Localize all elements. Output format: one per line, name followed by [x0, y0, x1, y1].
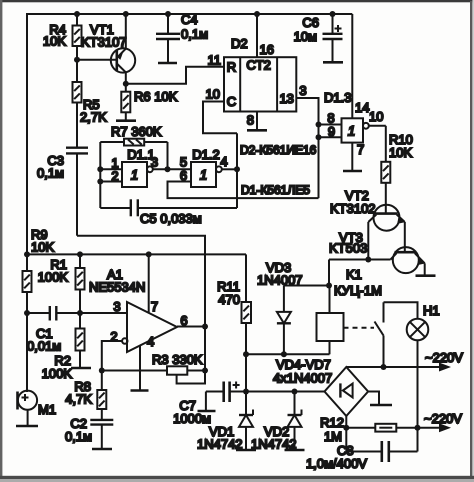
- junction top rail VT1 emitter: [123, 11, 129, 17]
- wire R11 to detector node: [245, 354, 247, 391]
- svg-text:100K: 100K: [38, 270, 69, 285]
- wire D1.1 pin 1: [100, 168, 122, 170]
- junction output node: [202, 324, 208, 330]
- wire VT1 base: [77, 59, 117, 61]
- svg-text:D1.2: D1.2: [192, 147, 219, 162]
- ground D1.3 pin 7: [343, 170, 362, 173]
- svg-text:0,01м: 0,01м: [27, 339, 61, 354]
- relay K1 coil: [317, 267, 382, 354]
- junction bus pin1: [97, 166, 103, 172]
- svg-text:CT2: CT2: [246, 58, 271, 73]
- resistor R9: [23, 227, 55, 392]
- svg-text:1000м: 1000м: [173, 411, 211, 426]
- svg-text:100K: 100K: [42, 366, 73, 381]
- label D2 type: [240, 143, 317, 157]
- lamp H1: [407, 303, 440, 340]
- ground C4: [158, 62, 177, 65]
- bridge rectifier VD4-VD7: [273, 357, 368, 416]
- junction VT1 collector node: [123, 81, 129, 87]
- junction mic node: [24, 310, 30, 316]
- wire R7 right leg: [167, 142, 169, 169]
- wire D1.3 pin 8: [319, 124, 342, 126]
- wire bridge right to ground: [368, 392, 379, 405]
- transistor VT2: [330, 188, 405, 260]
- junction VD3 bottom: [281, 351, 287, 357]
- wire contact bracket: [384, 302, 418, 319]
- wire D1.2 pin 6 feedback: [168, 182, 319, 199]
- svg-text:K1: K1: [346, 267, 362, 282]
- ground D2 pin 8: [247, 129, 267, 132]
- svg-text:R7 360K: R7 360K: [111, 124, 162, 139]
- junction top rail R4: [74, 11, 80, 17]
- svg-text:10K: 10K: [31, 240, 54, 255]
- junction rail R1: [77, 251, 83, 257]
- svg-text:R12: R12: [320, 415, 344, 430]
- resistor R3: [152, 352, 205, 375]
- diode VD3: [257, 260, 303, 354]
- wire supply rail mid: [27, 253, 246, 255]
- svg-text:1N4007: 1N4007: [257, 273, 303, 288]
- capacitor C8: [306, 428, 418, 471]
- arrow mains lower: [424, 411, 462, 432]
- svg-text:1: 1: [131, 168, 139, 183]
- wire R3 bottom jog: [177, 371, 205, 384]
- svg-text:10: 10: [369, 109, 383, 124]
- ground R2: [71, 367, 91, 370]
- ground VD2: [285, 449, 305, 452]
- svg-text:R: R: [227, 60, 236, 75]
- svg-text:C4: C4: [181, 12, 198, 27]
- ground C6: [323, 61, 343, 64]
- svg-text:1N4742: 1N4742: [197, 437, 243, 452]
- svg-text:C6: C6: [302, 15, 319, 30]
- junction rail op-amp pin7: [146, 251, 152, 257]
- resistor R12: [320, 415, 443, 444]
- wire C3 to op-amp output column: [77, 236, 205, 327]
- ground bridge: [370, 404, 392, 407]
- capacitor C1: [27, 306, 80, 354]
- capacitor C6 polarized: [294, 14, 343, 61]
- wire inverting node to R3: [102, 370, 167, 372]
- svg-text:470: 470: [218, 292, 240, 307]
- label D1 type: [241, 183, 310, 197]
- transistor VT1: [81, 14, 135, 84]
- svg-text:0,1м: 0,1м: [181, 27, 208, 42]
- wire D1.3 pin 7: [351, 143, 353, 170]
- gate D1.2: [180, 147, 228, 187]
- ground C2: [92, 448, 112, 451]
- wire bridge bottom: [345, 416, 347, 428]
- junction VD2 top: [292, 389, 298, 395]
- ground VT3 emitter: [416, 274, 436, 277]
- junction R3 right node: [202, 368, 208, 374]
- svg-text:KT3102: KT3102: [330, 201, 376, 216]
- svg-text:NE5534N: NE5534N: [89, 280, 145, 295]
- ground M1: [16, 425, 38, 428]
- svg-text:4: 4: [147, 334, 154, 349]
- transistor VT3: [329, 230, 425, 275]
- svg-text:10м: 10м: [294, 29, 317, 44]
- resistor R11: [217, 254, 251, 354]
- wire D1.3 output: [368, 125, 386, 127]
- svg-text:16: 16: [260, 42, 274, 57]
- counter D2 K561IE16: [224, 36, 296, 112]
- capacitor C5: [100, 199, 237, 226]
- svg-text:1: 1: [200, 168, 208, 183]
- svg-text:КУЦ-1М: КУЦ-1М: [334, 283, 382, 298]
- resistor R10: [381, 126, 413, 214]
- junction top rail C4: [165, 11, 171, 17]
- wire op-amp pin 3: [80, 312, 127, 314]
- junction D1.2 output node: [234, 166, 240, 172]
- junction pin 9: [316, 134, 322, 140]
- junction R4/R5/VT1 base node: [74, 57, 80, 63]
- svg-text:0,1м: 0,1м: [65, 429, 92, 444]
- resistor R6: [121, 84, 177, 120]
- svg-text:3: 3: [151, 155, 158, 170]
- ground R6: [116, 119, 136, 122]
- junction top rail D2 pin16: [254, 11, 260, 17]
- wire relay bottom to supply node: [246, 353, 330, 355]
- svg-text:C: C: [227, 94, 236, 109]
- wire down to relay node: [328, 260, 330, 286]
- svg-text:1,0м/400V: 1,0м/400V: [306, 456, 367, 471]
- svg-text:14: 14: [355, 100, 369, 115]
- junction contact bottom: [381, 364, 387, 370]
- pin label 11: [208, 53, 222, 68]
- wire D1.1 pin 2: [100, 181, 122, 183]
- wire D2 pin 16: [257, 14, 274, 57]
- capacitor C3: [37, 148, 88, 236]
- resistor R2: [42, 313, 85, 381]
- wire VD3 to relay top node: [284, 285, 329, 287]
- svg-text:R3 330K: R3 330K: [152, 352, 203, 367]
- junction pin 8: [316, 122, 322, 128]
- pin label 13: [279, 91, 293, 106]
- wire D1.2 output: [221, 168, 237, 170]
- wire D1.3 pin 14 from rail: [351, 14, 353, 118]
- svg-text:~220V: ~220V: [424, 411, 462, 426]
- svg-text:7: 7: [357, 142, 364, 157]
- svg-text:~220V: ~220V: [425, 350, 463, 365]
- svg-text:1: 1: [348, 124, 356, 139]
- ground C7: [198, 410, 216, 413]
- arrow mains upper: [425, 350, 463, 372]
- gate D1.1: [111, 147, 158, 187]
- wire D1.1 output to D1.2 pin 5: [152, 168, 191, 170]
- microphone M1: [18, 391, 57, 425]
- wire op-amp output: [177, 326, 205, 328]
- svg-text:10: 10: [206, 87, 220, 102]
- wire collector bus to relay: [329, 259, 391, 261]
- svg-text:D2: D2: [231, 36, 248, 51]
- svg-text:0,1м: 0,1м: [37, 166, 64, 181]
- svg-text:13: 13: [279, 91, 293, 106]
- wire op-amp pin 7: [148, 254, 150, 312]
- ground op-amp pin 4: [131, 389, 149, 392]
- svg-text:1M: 1M: [324, 429, 342, 444]
- capacitor C7: [173, 382, 246, 427]
- resistor R4: [43, 14, 82, 60]
- svg-text:D1-К561ЛЕ5: D1-К561ЛЕ5: [241, 183, 310, 197]
- svg-text:C5 0,033м: C5 0,033м: [140, 211, 202, 226]
- svg-text:4,7K: 4,7K: [65, 392, 92, 407]
- svg-text:D1.3: D1.3: [324, 90, 351, 105]
- svg-text:10K: 10K: [389, 145, 412, 160]
- wire D2 pin 3 output to D1.3 inputs: [296, 83, 318, 198]
- junction rail left: [24, 251, 30, 257]
- resistor R5: [73, 60, 108, 147]
- resistor R8: [65, 371, 106, 420]
- zener VD2: [251, 392, 302, 452]
- wire oscillator input bus: [99, 142, 101, 208]
- wire D1.3 pin 9: [319, 136, 342, 138]
- ground VD1: [236, 449, 256, 452]
- resistor R1: [38, 254, 85, 313]
- wire output column: [204, 327, 206, 371]
- junction R7 output node: [165, 166, 171, 172]
- svg-text:4x1N4007: 4x1N4007: [273, 371, 332, 386]
- pin label 10: [206, 87, 220, 102]
- wire detector node to bridge: [246, 391, 325, 393]
- junction inverting input node: [99, 368, 105, 374]
- junction VT2 collector: [365, 257, 371, 263]
- svg-text:D2-К561ИЕ16: D2-К561ИЕ16: [240, 143, 317, 157]
- svg-text:3: 3: [113, 299, 120, 314]
- junction top rail C6: [330, 11, 336, 17]
- svg-text:8: 8: [247, 113, 254, 128]
- gate D1.3: [324, 90, 383, 157]
- wire top supply rail: [27, 14, 352, 255]
- wire D1.2 output vertical to C5: [236, 133, 238, 208]
- wire D2 pin 8: [247, 112, 257, 130]
- wire VT1 collector to D2 pin 11: [126, 67, 224, 84]
- junction relay top node: [326, 283, 332, 289]
- wire lamp down to mains: [417, 340, 419, 451]
- junction lamp mains node: [415, 425, 421, 431]
- capacitor C2: [65, 416, 113, 448]
- resistor R7: [100, 124, 167, 146]
- wire op-amp pin 2: [102, 338, 128, 370]
- svg-text:10K: 10K: [43, 34, 66, 49]
- svg-text:2,7K: 2,7K: [80, 110, 107, 125]
- svg-text:4: 4: [220, 154, 227, 169]
- wire D2 pin 10 clock: [203, 102, 237, 134]
- wire bridge top to mains: [346, 366, 443, 368]
- op-amp A1: [89, 267, 188, 352]
- svg-text:11: 11: [208, 53, 222, 68]
- svg-text:H1: H1: [423, 303, 440, 318]
- svg-text:KT503: KT503: [329, 241, 367, 256]
- wire op-amp pin 4: [139, 346, 141, 390]
- junction op-amp plus input node: [77, 310, 83, 316]
- dashed relay actuation link: [344, 327, 375, 329]
- junction detector node: [243, 389, 249, 395]
- zener VD1: [197, 392, 253, 452]
- capacitor C4: [156, 12, 208, 62]
- junction R12 left node: [343, 425, 349, 431]
- junction R11 bottom: [243, 351, 249, 357]
- svg-text:7: 7: [151, 299, 158, 314]
- junction bus pin2: [97, 179, 103, 185]
- svg-text:R6 10K: R6 10K: [134, 89, 178, 104]
- svg-text:KT3107: KT3107: [81, 35, 127, 50]
- relay contact K1.1: [375, 302, 384, 367]
- svg-text:3: 3: [299, 83, 306, 98]
- svg-text:M1: M1: [38, 402, 56, 417]
